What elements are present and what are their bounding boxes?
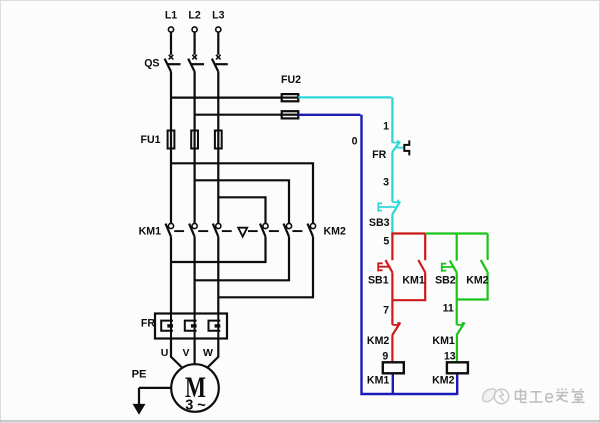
wire W to motor	[207, 339, 219, 369]
svg-text:11: 11	[443, 302, 454, 314]
thermal relay hook symbol	[404, 140, 409, 155]
wire control tap 1 to FU2 upper	[171, 96, 282, 98]
watermark text xue	[556, 388, 568, 401]
svg-text:KM1: KM1	[402, 275, 424, 287]
wire control tap 2 to FU2 lower	[195, 114, 282, 116]
wire green KM2 aux lower	[457, 272, 488, 299]
wire phase A vertical QS to KM1	[170, 72, 172, 224]
wire phase C vertical QS to KM1	[217, 72, 219, 224]
svg-text:KM1: KM1	[367, 375, 389, 387]
contactor KM1 main contact 2	[189, 223, 197, 236]
wire V to motor	[194, 339, 196, 365]
wire red rail node 5	[391, 232, 425, 234]
fuse FU1 phase A	[168, 131, 175, 149]
wire blue FU2 to bottom rail	[298, 115, 457, 395]
svg-text:5: 5	[383, 236, 389, 248]
wire KM2 pole6 lower crossover	[218, 237, 313, 298]
linkage triangle	[238, 228, 247, 237]
ground symbol	[133, 404, 144, 413]
svg-text:PE: PE	[132, 369, 147, 381]
svg-text:KM2: KM2	[466, 275, 488, 287]
contactor KM1 main contact 1	[166, 223, 174, 236]
wire red SB1 upper	[391, 234, 393, 261]
switch QS pole 1	[165, 59, 181, 72]
fuse FU1 phase B	[191, 131, 198, 149]
wire PE to motor	[139, 388, 171, 405]
switch QS pole 3	[212, 59, 228, 72]
svg-text:3: 3	[383, 177, 389, 189]
mechanical linkage dashes	[174, 230, 302, 232]
wire red node 9 to coil	[391, 336, 393, 363]
svg-text:1: 1	[383, 121, 389, 133]
svg-text:FU1: FU1	[140, 134, 160, 146]
svg-text:9: 9	[382, 351, 388, 363]
green branch	[425, 234, 487, 363]
svg-text:0: 0	[352, 136, 358, 148]
coil KM1	[383, 362, 404, 373]
bottom rule	[0, 420, 600, 422]
fuse FU2 upper	[282, 94, 299, 101]
contactor KM2 main contact 1	[260, 223, 268, 236]
svg-text:SB1: SB1	[368, 275, 389, 287]
wire KM2 pole5 lower crossover	[195, 237, 289, 281]
wire phase A through FU1	[170, 131, 172, 148]
contact FR NC (cyan)	[392, 140, 403, 152]
wire phase C through FU1	[217, 131, 219, 148]
wire KM1 pole2 lower to FR	[194, 237, 196, 315]
svg-text:KM1: KM1	[139, 226, 161, 238]
motor M circle	[171, 364, 219, 412]
svg-text:FR: FR	[141, 318, 155, 330]
FR heater phase A	[161, 314, 173, 339]
wire green SB2 lower node 11	[456, 272, 458, 324]
contactor KM1 main contact 3	[213, 223, 221, 236]
contact KM2 aux NO (green)	[481, 260, 488, 272]
watermark text gong	[530, 392, 543, 402]
FR heater phase B	[185, 314, 197, 339]
wire crossover A to KM2 pole6	[171, 163, 313, 223]
FR heater phase C	[209, 314, 221, 339]
button SB2 NO (green)	[450, 261, 457, 273]
wire KM1 pole3 lower to FR	[217, 237, 219, 315]
wire KM1 pole1 lower to FR	[170, 237, 172, 315]
contactor KM2 main contact 2	[284, 223, 292, 236]
svg-text:KM2: KM2	[367, 335, 389, 347]
svg-text:L1: L1	[165, 10, 177, 22]
thermal relay FR box	[155, 314, 227, 339]
svg-text:KM1: KM1	[432, 335, 454, 347]
svg-text:SB2: SB2	[435, 275, 456, 287]
watermark text tang	[572, 389, 585, 403]
svg-text:KM2: KM2	[324, 226, 346, 238]
wire crossover C to KM2 pole4	[218, 197, 265, 223]
wire crossover B to KM2 pole5	[195, 180, 289, 223]
svg-text:FU2: FU2	[281, 74, 301, 86]
button SB3 NC (cyan)	[378, 200, 400, 215]
control circuit colored wires	[298, 97, 487, 395]
wire cyan FU2 to node 1	[298, 97, 392, 142]
wire green rail	[425, 232, 487, 234]
fuse FU1 phase C	[215, 131, 222, 149]
svg-text:SB3: SB3	[369, 217, 390, 229]
contact KM1 aux NO (red)	[418, 260, 425, 272]
watermark text dian	[516, 388, 585, 402]
terminal L3	[216, 27, 221, 60]
svg-text:13: 13	[444, 351, 456, 363]
wire U to motor	[171, 339, 183, 369]
watermark text e	[546, 394, 553, 402]
terminal L1	[168, 27, 173, 60]
wire green SB2 upper	[456, 234, 458, 261]
svg-text:L2: L2	[188, 10, 200, 22]
wire red KM1 aux upper	[424, 234, 426, 261]
coil KM2	[447, 362, 468, 373]
wire cyan to node 5	[391, 215, 393, 233]
fuse FU2 lower	[282, 111, 299, 118]
wire green KM2 aux upper	[487, 234, 489, 260]
wire red KM1 aux lower	[392, 272, 425, 300]
contactor KM2 main contact 3	[308, 223, 316, 236]
wire phase B through FU1	[194, 131, 196, 148]
svg-text:L3: L3	[212, 10, 224, 22]
wire cyan node 3	[391, 152, 393, 202]
wire phase B vertical QS to KM1	[194, 72, 196, 224]
terminal L2	[192, 27, 197, 60]
svg-text:QS: QS	[144, 58, 159, 70]
wire red SB1 lower node 7	[391, 272, 393, 324]
contact KM1 NC interlock (green)	[457, 322, 463, 325]
svg-text:W: W	[203, 347, 213, 359]
svg-text:7: 7	[383, 304, 389, 316]
red branch	[378, 234, 425, 363]
switch QS pole 2	[188, 59, 204, 72]
svg-text:V: V	[182, 347, 189, 359]
svg-text:U: U	[161, 347, 169, 359]
wire blue under KM1 coil	[392, 374, 394, 395]
svg-text:3 ~: 3 ~	[185, 398, 206, 414]
svg-text:KM2: KM2	[432, 375, 454, 387]
watermark logo	[482, 389, 508, 404]
wire KM2 pole4 lower crossover	[171, 237, 266, 262]
button SB1 NO (red)	[386, 260, 393, 272]
wire green node 13 to coil	[456, 336, 458, 363]
svg-text:FR: FR	[372, 149, 386, 161]
contact KM2 NC interlock (red)	[392, 322, 398, 325]
